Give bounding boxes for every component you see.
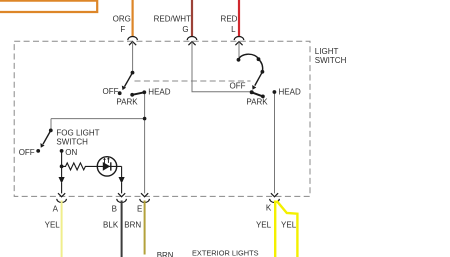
svg-text:PARK: PARK <box>116 97 138 106</box>
svg-text:RED: RED <box>221 14 238 23</box>
svg-text:SWITCH: SWITCH <box>315 56 347 65</box>
svg-text:OFF: OFF <box>103 87 119 96</box>
svg-text:BRN: BRN <box>157 251 174 257</box>
svg-text:LIGHT: LIGHT <box>315 47 339 56</box>
svg-text:EXTERIOR LIGHTS: EXTERIOR LIGHTS <box>192 248 259 257</box>
svg-text:PARK: PARK <box>246 98 268 107</box>
svg-text:FOG LIGHT: FOG LIGHT <box>56 129 99 138</box>
svg-text:B: B <box>112 204 117 213</box>
svg-text:L: L <box>231 25 236 34</box>
svg-text:HEAD: HEAD <box>148 87 170 96</box>
svg-text:YEL: YEL <box>45 221 61 230</box>
svg-text:G: G <box>182 25 188 34</box>
svg-text:OFF: OFF <box>230 82 246 91</box>
svg-text:BRN: BRN <box>124 221 141 230</box>
svg-text:SWITCH: SWITCH <box>56 138 88 147</box>
svg-text:A: A <box>53 204 59 213</box>
svg-text:ORG: ORG <box>113 14 131 23</box>
svg-text:E: E <box>137 204 142 213</box>
svg-text:HEAD: HEAD <box>279 87 301 96</box>
svg-text:F: F <box>120 25 125 34</box>
svg-text:RED/WHT: RED/WHT <box>154 14 191 23</box>
svg-text:YEL: YEL <box>256 220 272 229</box>
svg-text:ON: ON <box>65 148 77 157</box>
svg-text:OFF: OFF <box>19 148 35 157</box>
svg-text:K: K <box>266 204 272 213</box>
svg-text:BLK: BLK <box>103 221 119 230</box>
svg-text:YEL: YEL <box>281 220 297 229</box>
